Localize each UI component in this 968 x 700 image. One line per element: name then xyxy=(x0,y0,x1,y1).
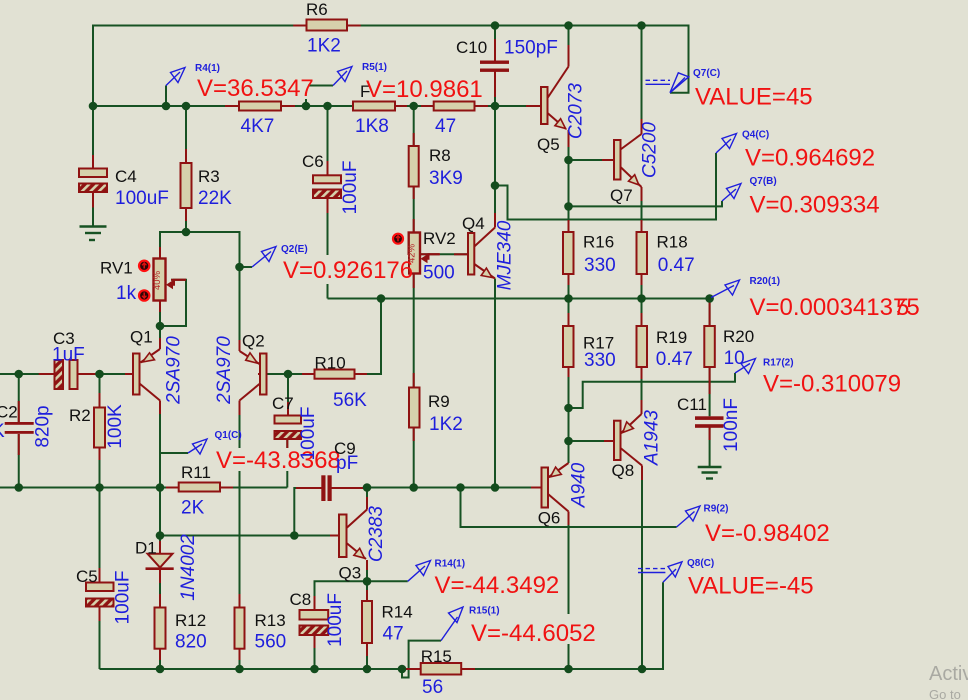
wire: C11 bottom to ground xyxy=(709,427,711,466)
capacitor C3 (input coupling) xyxy=(55,360,78,389)
svg-text:Q5: Q5 xyxy=(537,135,560,154)
svg-text:Q1(C): Q1(C) xyxy=(215,430,242,441)
voltage probe Q4(C) xyxy=(716,134,737,154)
wire: output rail y=298.5 xyxy=(328,298,710,300)
svg-text:100uF: 100uF xyxy=(298,407,319,461)
svg-text:A1943: A1943 xyxy=(642,410,663,466)
svg-text:0.47: 0.47 xyxy=(658,255,695,276)
svg-text:2SA970: 2SA970 xyxy=(164,336,185,405)
wire: C8 top lead from Q3 emitter node xyxy=(315,581,368,610)
svg-text:56: 56 xyxy=(422,677,443,698)
svg-text:D1: D1 xyxy=(135,539,157,558)
resistor R7 xyxy=(434,102,475,111)
svg-text:100uF: 100uF xyxy=(113,571,134,625)
wire: rail y=487.5 right of C9 xyxy=(367,487,495,489)
capacitor C5 (polar) xyxy=(86,583,114,607)
wire: Q2 base wire y=374 to C7/R10 node xyxy=(266,373,315,375)
resistor R2 xyxy=(94,408,105,448)
svg-text:R14: R14 xyxy=(382,603,413,622)
svg-text:Go to: Go to xyxy=(929,687,961,700)
resistor R19 xyxy=(637,326,648,367)
transistor Q1 (2SA970 PNP) xyxy=(133,349,160,401)
wire: C9 right plate to junction (367,487.5) xyxy=(332,487,368,490)
wire: Q4 collector node to probe Q4(C) line y=219 xyxy=(495,153,716,220)
wire: jog to probe line y=381.7 R17(2) xyxy=(569,373,736,408)
svg-text:Q2(E): Q2(E) xyxy=(281,244,308,255)
transistor Q7 (C5200 NPN) xyxy=(614,134,642,187)
wire: C7 bottom lead down to rail corner xyxy=(286,439,288,488)
wire: Q7 collector to top rail xyxy=(641,26,643,135)
wire: Q4 collector up to node (495,185.5) xyxy=(494,186,496,228)
capacitor C10 xyxy=(480,61,509,72)
svg-text:R8: R8 xyxy=(429,146,451,165)
svg-text:Q3: Q3 xyxy=(339,564,362,583)
svg-text:C5: C5 xyxy=(76,567,98,586)
svg-text:pF: pF xyxy=(336,453,358,474)
svg-text:V=-43.8368: V=-43.8368 xyxy=(216,447,341,474)
resistor R11 xyxy=(179,483,220,492)
svg-text:R14(1): R14(1) xyxy=(435,558,466,569)
svg-text:V=36.5347: V=36.5347 xyxy=(197,75,314,102)
wire: R17 bottom to junction (568.5,408) xyxy=(568,367,570,408)
svg-text:0.47: 0.47 xyxy=(656,349,693,370)
svg-text:R19: R19 xyxy=(656,328,687,347)
wire: R20 bottom to C11 xyxy=(709,367,711,416)
wire: R20 top xyxy=(709,299,711,327)
svg-text:R10: R10 xyxy=(315,354,346,373)
svg-text:R18: R18 xyxy=(657,233,688,252)
svg-text:C7: C7 xyxy=(272,394,294,413)
wire: Q3 emitter to junction (367,581.3) xyxy=(366,560,368,581)
svg-text:Q7(B): Q7(B) xyxy=(750,176,777,187)
svg-text:Q7(C): Q7(C) xyxy=(693,68,720,79)
svg-text:10: 10 xyxy=(724,348,745,369)
svg-text:VALUE=45: VALUE=45 xyxy=(695,84,813,111)
wire: RV1 bottom to junction (160,326) and Q1 emitter xyxy=(159,299,161,349)
wire: input wire y=374 from left edge to C3 xyxy=(0,373,55,375)
svg-text:V=-44.6052: V=-44.6052 xyxy=(471,620,596,647)
resistor R9 xyxy=(409,388,420,428)
svg-text:1K8: 1K8 xyxy=(355,116,389,137)
svg-text:22K: 22K xyxy=(198,188,232,209)
svg-text:100uF: 100uF xyxy=(325,593,346,647)
capacitor C8 (polar) xyxy=(300,610,329,635)
svg-text:C6: C6 xyxy=(302,152,324,171)
wire: probe R14(1) stub xyxy=(367,580,408,582)
power terminal Q8(C) -45V xyxy=(638,562,682,583)
transistor Q3 (C2383 NPN) xyxy=(339,510,367,560)
rotated value labels (blue) xyxy=(33,161,743,647)
wire: feedback tap R10 right column x=381 xyxy=(380,299,382,375)
wire: Q8 base wire y=441 xyxy=(569,440,615,442)
wire: C5 column x=99.5 xyxy=(99,488,101,583)
svg-text:R2: R2 xyxy=(69,406,91,425)
capacitor C2 xyxy=(5,422,34,434)
svg-text:Q8: Q8 xyxy=(612,461,635,480)
resistor R15 xyxy=(421,663,462,675)
svg-text:C10: C10 xyxy=(456,38,487,57)
svg-text:R9(2): R9(2) xyxy=(704,504,729,515)
wire: R13 bottom xyxy=(239,649,241,669)
wire: R9(2) probe line y=527 xyxy=(461,488,677,528)
wire: Q4 emitter column down to rail y=487.5 xyxy=(494,279,496,488)
wire: Q8 collector down to negative rail xyxy=(641,466,643,670)
voltage probe Q7(B) xyxy=(722,184,741,202)
svg-text:C5200: C5200 xyxy=(640,122,661,178)
svg-text:C2: C2 xyxy=(0,403,18,422)
potentiometer RV1 xyxy=(139,259,186,301)
transistor Q6 (A940 PNP) xyxy=(542,463,569,512)
resistor R20 xyxy=(704,326,715,367)
svg-text:100uF: 100uF xyxy=(115,188,169,209)
probe labels (small blue) xyxy=(195,62,794,617)
wire: Q6 collector down to negative rail xyxy=(568,512,570,670)
svg-text:V=-0.98402: V=-0.98402 xyxy=(705,520,830,547)
resistor R18 xyxy=(637,232,648,274)
wire: Q6 base wire y=487.5 from Q4 emitter node xyxy=(495,487,542,489)
transistor Q8 (A1943 PNP) xyxy=(614,414,642,466)
wire: Q1 collector column to rail y=487.5 xyxy=(159,401,161,488)
svg-text:560: 560 xyxy=(255,632,287,653)
svg-text:R11: R11 xyxy=(181,463,211,482)
resistor R16 xyxy=(563,232,574,274)
svg-text:1K2: 1K2 xyxy=(429,414,463,435)
wire: emitter rail y=232 from RV1 top to Q2 emitter column xyxy=(160,232,240,351)
svg-text:40%: 40% xyxy=(152,270,163,290)
resistor R17 xyxy=(563,326,574,367)
svg-text:R5(1): R5(1) xyxy=(362,62,387,73)
svg-text:A940: A940 xyxy=(569,462,590,508)
maroon component pin leads xyxy=(19,26,710,670)
svg-text:500: 500 xyxy=(423,263,455,284)
voltage probe R5(1) xyxy=(333,67,352,86)
transistor Q4 (MJE340 NPN) xyxy=(468,228,495,279)
svg-text:R6: R6 xyxy=(306,0,328,19)
svg-text:330: 330 xyxy=(584,350,616,371)
wire: RV1 wiper to junction (160,326) xyxy=(160,280,186,326)
svg-text:2K: 2K xyxy=(181,498,205,519)
ground (C4) xyxy=(80,227,107,241)
component value labels (blue) xyxy=(0,36,745,699)
component reference labels (black) xyxy=(0,0,754,666)
svg-text:R17(2): R17(2) xyxy=(763,358,794,369)
wire: probe Q2(E) green stub xyxy=(240,266,253,268)
svg-text:R13: R13 xyxy=(255,611,286,630)
svg-text:Activ: Activ xyxy=(929,663,968,685)
wire: RV2 wiper to Q4 base xyxy=(420,253,468,255)
potentiometer RV2 xyxy=(393,233,440,274)
resistor R14 xyxy=(362,601,372,643)
svg-text:RV2: RV2 xyxy=(423,229,456,248)
voltage probe R4(1) xyxy=(166,68,185,86)
wire: R17 top xyxy=(568,299,570,327)
voltage probe R14(1) xyxy=(408,561,431,582)
svg-text:V=10.9861: V=10.9861 xyxy=(366,76,483,103)
wire: C10/Q5-base/Q4-collector column x=495 xyxy=(494,26,496,61)
svg-text:V=0.309334: V=0.309334 xyxy=(750,192,880,219)
svg-text:100nF: 100nF xyxy=(721,398,742,452)
ground (C11) xyxy=(698,467,722,479)
svg-text:3K9: 3K9 xyxy=(429,168,463,189)
svg-text:150pF: 150pF xyxy=(504,38,558,59)
resistor R4 xyxy=(239,102,281,111)
wire: probe R5(1) stem xyxy=(306,86,333,107)
svg-text:Q4: Q4 xyxy=(462,214,485,233)
svg-text:R20(1): R20(1) xyxy=(750,276,781,287)
transistor Q2 (2SA970 PNP) xyxy=(240,351,267,401)
svg-text:K: K xyxy=(0,421,5,442)
wire: R19 bottom to Q8 emitter xyxy=(641,367,643,414)
resistor R10 xyxy=(315,370,355,379)
wire: Q5 emitter / Q7 base column x=568.5 xyxy=(568,130,570,232)
resistor R8 xyxy=(409,146,419,187)
resistor R3 xyxy=(181,163,192,208)
svg-text:V=0.926176: V=0.926176 xyxy=(283,257,413,284)
wire: C9 bias node corner down to Q3 base wire xyxy=(294,488,300,536)
wire: C4 leads to ground xyxy=(92,106,94,169)
resistor R6 xyxy=(307,20,348,31)
capacitor C6 (polar) xyxy=(313,175,341,198)
wire: D1 cathode to R12 xyxy=(159,570,161,608)
resistor R12 xyxy=(155,608,166,649)
svg-text:47: 47 xyxy=(435,116,456,137)
svg-text:R4(1): R4(1) xyxy=(195,63,220,74)
svg-text:MJE340: MJE340 xyxy=(495,220,516,290)
voltage probe R15(1) xyxy=(441,607,463,641)
svg-text:RV1: RV1 xyxy=(100,259,133,278)
svg-text:Q4(C): Q4(C) xyxy=(742,130,769,141)
wire: Q2 collector column x=239.5 down to R13 xyxy=(239,401,241,608)
wire: C6 bootstrap column x=327.5 from rail y=106 to output rail xyxy=(327,106,329,175)
svg-text:1uF: 1uF xyxy=(52,345,85,366)
svg-text:Q6: Q6 xyxy=(538,509,561,528)
wire: Q7 emitter down to R18 xyxy=(641,187,643,232)
svg-text:820: 820 xyxy=(175,632,207,653)
svg-text:R9: R9 xyxy=(428,392,450,411)
svg-text:R15: R15 xyxy=(421,647,452,666)
wire: D1 top / Q3 base wire y=535.5 xyxy=(159,488,161,554)
svg-text:330: 330 xyxy=(584,255,616,276)
svg-text:V=0.000341375: V=0.000341375 xyxy=(750,294,920,321)
wire: main upper rail y=106 (R6 bottom node to Q5 base) xyxy=(93,105,541,107)
svg-text:R3: R3 xyxy=(198,167,220,186)
svg-text:V=-0.310079: V=-0.310079 xyxy=(763,371,901,398)
svg-text:R15(1): R15(1) xyxy=(469,606,500,617)
wire: R19 top xyxy=(641,299,643,327)
wire: Q7 base wire y=160 xyxy=(569,159,615,161)
svg-text:Q8(C): Q8(C) xyxy=(687,558,714,569)
wire: probe R15(1) jog xyxy=(402,641,441,678)
svg-text:VALUE=-45: VALUE=-45 xyxy=(688,573,814,600)
svg-text:1K2: 1K2 xyxy=(307,36,341,57)
voltage probe Q2(E) xyxy=(252,247,276,268)
voltage probe R20(1) xyxy=(711,280,740,298)
rotated device-type labels (blue italic) xyxy=(164,83,663,601)
svg-text:V=0.964692: V=0.964692 xyxy=(745,145,875,172)
wire: R8/RV2/R9 column x=413.7 xyxy=(413,106,415,146)
wire: C7 top lead xyxy=(287,374,289,416)
svg-text:C2383: C2383 xyxy=(366,506,387,562)
svg-text:1k: 1k xyxy=(116,283,137,304)
svg-text:R12: R12 xyxy=(175,611,206,630)
resistor R5 xyxy=(353,102,395,111)
red probe value texts (opaque background erases wires beneath) xyxy=(195,75,920,647)
wire: C3 right plate to Q1 base xyxy=(78,373,133,375)
resistor R13 xyxy=(235,608,245,649)
wire: R10 right lead up to output rail xyxy=(355,299,382,375)
wire: C8 bottom xyxy=(314,635,316,669)
svg-text:C11: C11 xyxy=(677,395,707,414)
wire: R14 bottom xyxy=(366,643,368,669)
svg-text:C8: C8 xyxy=(290,590,312,609)
wire: probe Q1(C) stub y=453 xyxy=(160,452,188,454)
capacitor C9 xyxy=(321,475,331,501)
svg-text:V=-44.3492: V=-44.3492 xyxy=(435,572,560,599)
power terminal Q7(C) +45V xyxy=(646,73,689,93)
voltage probe R17(2) xyxy=(735,359,756,374)
voltage probe R9(2) xyxy=(677,506,700,527)
wire: Q5 collector to top rail xyxy=(568,26,570,67)
wire: junction column Q6 emitter / Q8 base x=568.5 xyxy=(568,408,570,463)
svg-text:100uF: 100uF xyxy=(340,161,361,215)
svg-text:5: 5 xyxy=(896,294,909,321)
svg-text:47: 47 xyxy=(383,624,404,645)
wire: lower rail y=487.5 (C2/R2/Q1C/R11 net) xyxy=(0,487,179,489)
wire: top +45V rail from corner above C4 to power terminal Q7(C) xyxy=(93,26,689,107)
svg-text:100K: 100K xyxy=(105,404,126,449)
wire: R14 top xyxy=(366,581,368,601)
wire: R2 column x=99.5 xyxy=(99,374,101,408)
svg-text:820p: 820p xyxy=(33,405,54,447)
Windows activation watermark xyxy=(929,663,968,700)
wire: probe R4(1) stem xyxy=(165,86,167,107)
capacitor C11 xyxy=(695,416,724,428)
wire: R3 column x=186 from rail to emitter rail y=232 xyxy=(185,106,187,163)
svg-text:C2073: C2073 xyxy=(566,83,587,139)
capacitor C4 (polar) xyxy=(79,169,107,193)
svg-text:C4: C4 xyxy=(115,167,137,186)
svg-text:Q1: Q1 xyxy=(130,328,153,347)
wire: Q3 collector to junction (367,487.5) xyxy=(366,488,368,510)
transistor Q5 (C2073 NPN) xyxy=(541,67,569,130)
svg-text:R16: R16 xyxy=(583,233,614,252)
wire: C2 column x=18.75 xyxy=(18,374,20,422)
diode D1 (1N4002) xyxy=(146,554,174,569)
voltage probe Q1(C) xyxy=(188,439,207,454)
capacitor C7 (polar) xyxy=(275,416,302,440)
svg-text:Q2: Q2 xyxy=(242,332,265,351)
wire: R18 bottom to output rail xyxy=(641,274,643,299)
wire: R16 bottom to output rail xyxy=(568,274,570,299)
svg-text:R20: R20 xyxy=(723,327,754,346)
wire: negative rail y=669 xyxy=(100,582,664,669)
svg-text:Q7: Q7 xyxy=(610,186,633,205)
wire: Q7 base probe line y=206.4 to probe Q7(B) xyxy=(569,201,723,206)
svg-text:1N4002: 1N4002 xyxy=(178,534,199,601)
svg-text:4K7: 4K7 xyxy=(241,116,275,137)
svg-text:2SA970: 2SA970 xyxy=(214,336,235,405)
wire: R12 bottom to negative rail xyxy=(159,649,161,669)
svg-text:56K: 56K xyxy=(333,390,367,411)
